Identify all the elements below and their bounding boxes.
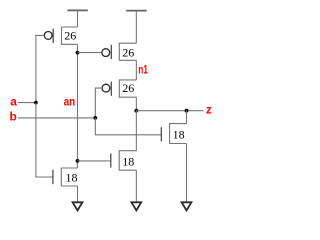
transistor M3 PMOS 26 (gate b, drain z) (102, 80, 136, 97)
wire a-net down to N1 gate (36, 103, 53, 177)
wire n1 between M2 and M3 (135, 60, 137, 80)
svg-text:n1: n1 (138, 62, 148, 76)
wire input b (18, 117, 95, 119)
svg-text:18: 18 (122, 154, 134, 168)
wire N3 source to ground (186, 144, 188, 203)
junction a-node (34, 101, 38, 105)
wire VDD stub to M2 source (135, 11, 137, 44)
transistor N3 NMOS 18 (gate b, drain z) (161, 111, 186, 144)
junction z at M3 drain (134, 109, 138, 113)
wire input a (18, 102, 36, 104)
transistor N2 NMOS 18 (gate an, source gnd) (111, 151, 137, 171)
junction an at N2 gate tap (76, 159, 80, 163)
junction b-node (93, 116, 97, 120)
wire M1 drain down (an net) (77, 44, 79, 168)
power rail VDD left (67, 9, 87, 11)
wire an to N2 gate (78, 160, 111, 162)
svg-text:a: a (10, 95, 17, 109)
wire N1 source to ground (77, 186, 79, 202)
wire N2 source to ground (135, 170, 137, 202)
svg-text:26: 26 (64, 28, 76, 42)
svg-text:26: 26 (122, 45, 134, 59)
wire an to M2 gate (78, 52, 102, 54)
power rail VDD right (126, 10, 146, 12)
svg-text:z: z (206, 102, 212, 116)
wire b-net down to N3 gate (95, 118, 161, 135)
junction z at N3 drain (185, 109, 189, 113)
wire z horizontal to output (136, 110, 203, 112)
wire z down to N2 drain (135, 111, 137, 151)
transistor N1 NMOS 18 (gate a, drain an) (53, 168, 78, 186)
wire M1 gate to a-net vertical (36, 35, 44, 102)
svg-text:18: 18 (173, 128, 185, 142)
svg-text:18: 18 (66, 170, 78, 184)
wire M3 drain to z node (135, 97, 137, 111)
svg-text:26: 26 (122, 81, 134, 95)
wire M3 gate to b-net (95, 88, 102, 118)
junction an at M2 gate tap (76, 51, 80, 55)
ground symbol right (182, 202, 192, 210)
wire VDD stub to M1 source (77, 10, 79, 27)
ground symbol left (73, 202, 83, 210)
ground symbol middle (131, 202, 141, 210)
svg-text:an: an (64, 95, 76, 109)
transistor M2 PMOS 26 (gate an, drain n1) (102, 43, 136, 60)
svg-text:b: b (10, 109, 17, 123)
transistor M1 PMOS 26 (gate a, drain an) (44, 27, 77, 44)
